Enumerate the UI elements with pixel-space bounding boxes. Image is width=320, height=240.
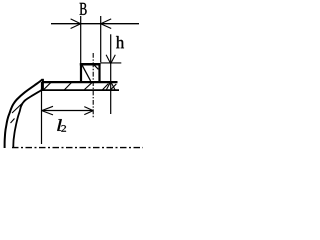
extension line left (boss left) [80, 16, 82, 63]
wall hatch stroke 3 [11, 119, 15, 124]
extension line l2 (flange left, vertical) [41, 82, 43, 144]
flange hatch stroke 2 [64, 83, 72, 91]
axis centerline (dash-dot horizontal) [12, 147, 143, 149]
outer bell curve [5, 80, 43, 149]
flange hatch stroke 3 (under boss) [85, 82, 93, 89]
dimension line B [51, 23, 139, 25]
boss top extension line (to the right) [101, 62, 122, 64]
boss top edge [80, 63, 101, 66]
wall hatch stroke 2 [12, 103, 23, 113]
arrow l2 left (tip at extension line, pointing left) [42, 106, 53, 115]
label B [80, 3, 87, 15]
flange top surface [42, 81, 118, 83]
flange bottom surface [43, 89, 119, 91]
wall hatch stroke 1 [20, 98, 29, 107]
flange hatch stroke 5 [111, 84, 117, 90]
arrow h lower (tip at flange top, pointing up) [106, 82, 115, 91]
dimension line h (vertical) [110, 34, 112, 114]
dimension line l2 [42, 110, 94, 112]
inner bell curve [13, 90, 42, 149]
arrow B right (tip at right extension line, pointing left) [101, 19, 112, 29]
boss right edge [98, 63, 100, 83]
flange hatch stroke 1 [44, 82, 52, 90]
arrow l2 right (tip at centerline, pointing right) [84, 107, 93, 115]
boss hatch stroke [92, 63, 98, 69]
arrow B left (tip at left extension line, pointing right) [71, 19, 81, 29]
flange left edge [42, 79, 44, 91]
flange hatch stroke 4 [103, 84, 109, 90]
boss left edge [80, 63, 82, 83]
label l2 [57, 119, 62, 131]
centerline of boss (dash-dot vertical) [92, 53, 94, 118]
label h [116, 36, 124, 48]
arrow h upper (tip at boss-top extension, pointing down) [106, 55, 115, 64]
extension line right (boss right) [100, 16, 102, 63]
boss face diagonal [82, 65, 91, 81]
